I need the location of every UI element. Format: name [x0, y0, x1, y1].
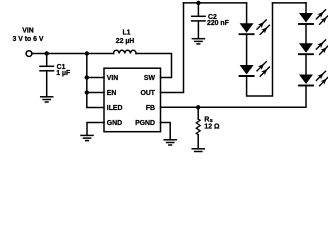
LED D3: [299, 10, 328, 25]
node junction IC supply tap: [85, 51, 89, 55]
ground below C1: [41, 97, 53, 102]
wire C2 top lead: [197, 3, 199, 16]
wire input rail from terminal to inductor: [32, 53, 114, 55]
wire string 1 bottom to riser: [247, 3, 273, 96]
svg-text:EN: EN: [107, 90, 117, 97]
wire IC supply rail drop: [87, 54, 104, 108]
svg-text:12 Ω: 12 Ω: [204, 124, 220, 131]
svg-text:FB: FB: [146, 105, 155, 112]
LED D1: [240, 20, 270, 35]
capacitor C1: [40, 66, 54, 71]
node junction EN pin: [85, 90, 89, 94]
wire top rail to LED string 1: [184, 2, 247, 4]
ground below Rs: [192, 149, 204, 154]
svg-text:1 µF: 1 µF: [56, 70, 70, 77]
svg-text:VIN: VIN: [22, 28, 34, 35]
wire between D3 and D4: [305, 24, 307, 43]
wire C2 bottom lead: [197, 21, 199, 39]
wire top rail 2 to LED string 2: [273, 2, 307, 4]
wire inductor to SW: [136, 54, 171, 78]
node junction Rs tap: [196, 105, 200, 109]
svg-text:ILED: ILED: [107, 105, 123, 112]
capacitor C2: [192, 16, 205, 21]
op-amp U1 IC box: [104, 68, 161, 132]
svg-text:SW: SW: [144, 75, 156, 82]
wire Rs bottom lead: [197, 135, 199, 149]
LED D5: [299, 71, 328, 86]
ground below PGND: [164, 140, 176, 145]
LED D2: [240, 62, 270, 76]
resistor Rs: [196, 119, 200, 135]
wire OUT to top rail: [161, 3, 184, 93]
wire between D4 and D5: [305, 54, 307, 74]
wire LED string 1 top lead: [246, 3, 248, 23]
wire C1 top lead: [46, 54, 48, 67]
wire EN pin stub: [87, 92, 104, 94]
svg-text:L1: L1: [122, 30, 130, 37]
ground below C2: [192, 39, 204, 44]
node junction C2 tap: [196, 1, 200, 5]
wire GND pin lead: [87, 123, 104, 136]
wire PGND pin lead: [161, 123, 171, 140]
svg-text:GND: GND: [107, 120, 122, 127]
node junction C1 tap: [45, 51, 49, 55]
inductor L1: [114, 50, 137, 53]
node VIN input terminal: [26, 51, 32, 57]
wire LED string 2 top lead: [305, 3, 307, 13]
wire string 2 bottom to FB line: [161, 86, 307, 108]
LED D4: [299, 40, 328, 55]
ground below GND pin: [81, 135, 93, 140]
svg-text:220 nF: 220 nF: [207, 20, 229, 27]
svg-text:PGND: PGND: [135, 120, 155, 127]
wire between D1 and D2: [246, 34, 248, 65]
wire VIN pin stub: [87, 77, 104, 79]
wire C1 bottom lead: [46, 71, 48, 97]
svg-text:OUT: OUT: [140, 90, 155, 97]
svg-text:VIN: VIN: [107, 75, 119, 82]
node junction VIN pin: [85, 75, 89, 79]
svg-text:22 µH: 22 µH: [116, 38, 135, 45]
svg-text:3 V to 6 V: 3 V to 6 V: [12, 36, 43, 43]
wire Rs top lead: [197, 107, 199, 119]
